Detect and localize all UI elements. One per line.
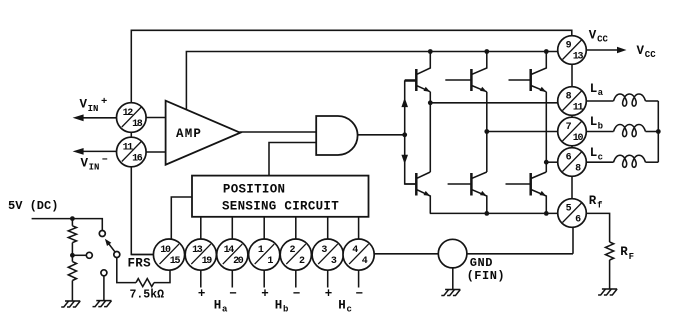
transistor Q2 upper phase B	[445, 52, 487, 92]
switch contact A (divider tap)	[86, 252, 92, 258]
wire right pin column vertical	[571, 64, 573, 199]
svg-text:19: 19	[202, 256, 213, 267]
svg-text:F: F	[629, 252, 634, 262]
label 7.5kOhm	[130, 289, 165, 302]
svg-text:c: c	[347, 305, 352, 315]
inductor Lc motor winding	[586, 155, 658, 167]
wire box left to pin 10/15 top	[171, 197, 192, 240]
svg-text:POSITION: POSITION	[223, 182, 285, 196]
pin GND (FIN) circle	[438, 239, 467, 268]
transistor Q4 lower phase A	[405, 172, 431, 213]
pin 7/10 Lb	[558, 117, 587, 146]
wire AMP output to AND gate	[240, 131, 317, 133]
label Rf	[589, 194, 603, 211]
svg-text:L: L	[590, 82, 598, 96]
wire between pin 12/18 and 11/16	[130, 118, 132, 153]
svg-text:AMP: AMP	[176, 127, 202, 141]
transistor Q5 lower phase B	[448, 172, 487, 213]
svg-text:13: 13	[573, 52, 584, 63]
svg-text:H: H	[275, 299, 283, 313]
svg-text:b: b	[283, 305, 288, 315]
labels hall polarity + -	[198, 287, 363, 301]
svg-text:16: 16	[132, 154, 143, 165]
svg-text:H: H	[214, 299, 222, 313]
svg-text:V: V	[637, 44, 645, 58]
label Lc	[590, 146, 603, 162]
wire pin 12/18 to AMP + input	[146, 117, 167, 119]
svg-text:14: 14	[224, 245, 235, 256]
svg-text:a: a	[222, 305, 228, 315]
wire RF to ground	[609, 260, 611, 289]
label 5V (DC)	[8, 199, 58, 213]
arrow down to lower bases	[401, 155, 408, 165]
pin 2/2 Hb-	[280, 239, 311, 270]
wire VCC output arrow	[586, 47, 626, 54]
svg-text:7.5kΩ: 7.5kΩ	[130, 289, 165, 302]
ground for divider	[61, 301, 80, 307]
label VCC right	[637, 44, 657, 60]
svg-text:+: +	[261, 287, 269, 301]
transistor Q3 upper phase C	[509, 52, 547, 92]
label Hb	[275, 299, 289, 315]
svg-text:f: f	[597, 200, 602, 210]
junction top rail phase C	[544, 49, 549, 54]
label La	[590, 82, 604, 98]
wire 5V rail to divider	[71, 219, 73, 226]
pin 3/3 Hc+	[312, 239, 343, 270]
svg-text:+: +	[198, 287, 206, 301]
switch contact B (ground)	[101, 270, 107, 276]
wire phase A output node vertical	[429, 92, 431, 172]
junction top rail phase B	[484, 49, 489, 54]
wire phase C output node vertical	[545, 92, 547, 172]
svg-text:IN: IN	[89, 162, 100, 172]
switch blade FRS select	[105, 239, 115, 252]
svg-text:L: L	[590, 115, 598, 129]
label Lb	[590, 115, 603, 131]
svg-text:–: –	[102, 154, 109, 166]
svg-text:a: a	[598, 88, 604, 98]
inductor La motor winding	[586, 94, 658, 106]
pin 11/16 VIN-	[117, 137, 147, 167]
transistor Q1 upper phase A	[405, 52, 431, 92]
wire phase B output node vertical	[486, 92, 488, 172]
svg-text:IN: IN	[88, 104, 99, 114]
svg-text:5V (DC): 5V (DC)	[8, 199, 58, 213]
wire motor star point	[656, 101, 661, 162]
switch common contact (5V)	[99, 231, 105, 237]
svg-text:+: +	[101, 96, 107, 108]
switch pole contact	[114, 252, 120, 258]
resistor divider upper	[68, 226, 76, 243]
pin 8/11 La	[558, 87, 587, 116]
wire divider middle	[70, 243, 75, 262]
svg-text:L: L	[590, 146, 598, 160]
wire divider tap to contact	[72, 254, 86, 256]
pin 5/6 Rf	[558, 199, 587, 228]
wire pin 4/4 to GND(FIN) to pin 5/6 bottom	[374, 228, 573, 254]
svg-text:b: b	[598, 121, 603, 131]
op-amp AMP	[166, 101, 241, 165]
wire base drive vertical to upper/lower transistor bases	[402, 81, 416, 184]
node VIN- arrow	[73, 148, 117, 155]
svg-text:H: H	[338, 299, 346, 313]
wire Lc output to pin 6/8	[544, 160, 560, 165]
wire Lb output to pin 7/10	[484, 129, 560, 134]
svg-text:R: R	[589, 194, 597, 208]
label VCC above pin 9/13	[589, 29, 609, 45]
svg-text:13: 13	[192, 245, 203, 256]
resistor 7.5k	[136, 279, 154, 287]
resistor RF	[605, 242, 613, 260]
label RF	[620, 245, 634, 262]
pin 14/20 Ha-	[217, 239, 248, 270]
wire lower emitter rail to pin 5/6	[430, 211, 560, 216]
svg-text:SENSING CIRCUIT: SENSING CIRCUIT	[222, 199, 339, 213]
label Ha	[214, 299, 228, 315]
svg-text:18: 18	[132, 119, 143, 130]
svg-text:c: c	[598, 152, 603, 162]
pin 4/4 Hc-	[343, 239, 374, 270]
wire pin 11/16 bottom to pin 10/15 left	[131, 166, 154, 255]
wire AMP top to VCC rail / bridge collectors	[186, 52, 558, 110]
pin 10/15 FRS	[153, 239, 184, 270]
svg-text:10: 10	[573, 133, 584, 144]
wire switch pole down	[117, 258, 136, 283]
resistor divider lower	[68, 262, 76, 281]
wires box bottom to hall pins	[201, 217, 359, 240]
wire from pin 12/18 top to pin 9/13 top (VCC loop)	[131, 30, 572, 104]
pin 6/8 Lc	[558, 148, 587, 177]
gate AND U1	[316, 116, 357, 155]
svg-text:CC: CC	[597, 35, 608, 45]
node VIN+ arrow	[73, 114, 117, 121]
svg-text:10: 10	[160, 245, 171, 256]
ground for switch	[93, 301, 112, 307]
wire pin 11/16 to AMP - input	[146, 151, 167, 153]
block POSITION SENSING CIRCUIT	[192, 176, 369, 217]
ground for GND(FIN)	[441, 290, 460, 296]
svg-text:11: 11	[573, 103, 584, 114]
svg-text:−: −	[293, 287, 301, 301]
wire GND(FIN) to ground	[452, 268, 454, 289]
wire 7.5k to pin 10/15 bottom	[154, 270, 170, 283]
label FRS	[128, 257, 152, 271]
ground for RF	[598, 289, 617, 295]
transistor Q6 lower phase C	[506, 172, 547, 213]
svg-text:V: V	[80, 98, 88, 112]
wire pin 5/6 to resistor RF	[586, 213, 609, 242]
wire AND gate output to base drive node	[358, 134, 405, 136]
svg-text:20: 20	[233, 256, 244, 267]
junction top rail phase A	[428, 49, 433, 54]
label Hc	[338, 299, 352, 315]
label VIN+	[80, 96, 108, 114]
wire 5V rail	[32, 216, 103, 230]
pin 12/18 VIN+	[117, 103, 147, 133]
svg-text:−: −	[356, 287, 364, 301]
wire contact B to ground	[103, 276, 105, 300]
svg-text:12: 12	[123, 108, 134, 119]
pin 9/13 VCC	[558, 36, 587, 65]
svg-text:11: 11	[123, 142, 134, 153]
svg-text:CC: CC	[645, 50, 656, 60]
wires hall sensor stubs	[201, 270, 359, 288]
wire under bottom pin row	[131, 254, 374, 256]
pin 13/19 Ha+	[185, 239, 216, 270]
svg-text:FRS: FRS	[128, 257, 152, 271]
wire La output to pin 8/11	[428, 100, 560, 105]
svg-text:(FIN): (FIN)	[467, 269, 506, 283]
svg-text:R: R	[620, 245, 628, 259]
wire divider to ground	[71, 281, 73, 301]
svg-text:−: −	[229, 287, 237, 301]
inductor Lb motor winding	[586, 125, 658, 137]
svg-text:15: 15	[170, 256, 181, 267]
svg-text:V: V	[81, 156, 89, 170]
svg-text:V: V	[589, 29, 597, 43]
label GND (FIN)	[467, 256, 506, 283]
svg-text:+: +	[325, 287, 333, 301]
pin 1/1 Hb+	[249, 239, 280, 270]
arrow up to upper bases	[401, 98, 408, 108]
wire AND gate input 2 from position sensing circuit	[269, 143, 316, 176]
label VIN-	[81, 154, 109, 173]
